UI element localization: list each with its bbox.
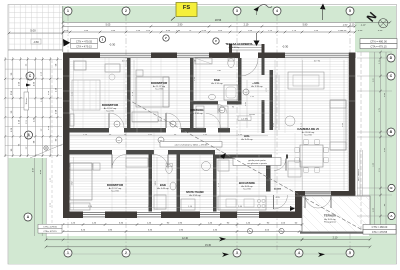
- terrace slab: [302, 196, 370, 232]
- grid bubble 2 bottom: [122, 249, 130, 257]
- door tag U1: [116, 137, 122, 143]
- svg-text:1.10: 1.10: [378, 30, 383, 32]
- svg-text:h= 2.55: h= 2.55: [106, 111, 114, 113]
- inner dim row corridor: [69, 135, 268, 137]
- bottom dim row 1: [63, 224, 302, 226]
- svg-text:12.40: 12.40: [182, 237, 189, 240]
- svg-text:5: 5: [349, 9, 351, 13]
- exterior wall: left: [63, 53, 70, 219]
- neighbour lot south edge: [8, 49, 63, 51]
- exterior wall: top, segment 2: [151, 53, 177, 59]
- bottom axis connector line: [63, 253, 351, 255]
- partition: bath/hall vertical upper: [238, 58, 242, 104]
- door tech room swing: [274, 159, 286, 171]
- north compass circle: [379, 19, 388, 28]
- floor parquet stripes: [70, 59, 348, 210]
- bottom ETN/ETA boxes left: [38, 224, 62, 228]
- garden green: top-right corner block: [355, 6, 396, 52]
- bottom bath fixtures: [166, 165, 172, 174]
- svg-text:CTN = 479.55: CTN = 479.55: [43, 227, 57, 229]
- entry door leaf + swing: [240, 58, 242, 76]
- porch steps: [232, 44, 262, 46]
- svg-text:BAIE: BAIE: [160, 183, 166, 187]
- grid bubble C left: [26, 72, 34, 80]
- svg-text:h= 2.55: h= 2.55: [111, 191, 119, 193]
- axis 4 vertical line: [276, 15, 278, 250]
- svg-text:CTA = 479.15: CTA = 479.15: [43, 230, 57, 233]
- wardrobe bottom bedroom: [126, 158, 148, 167]
- svg-text:atic h:2.20 [m]; h= 505m + 479: atic h:2.20 [m]; h= 505m + 479.55: [175, 144, 208, 147]
- svg-text:9x17.5x28cm: 9x17.5x28cm: [358, 169, 360, 181]
- green band left edge: [62, 6, 64, 52]
- partition: bottom bath left vertical: [149, 155, 153, 212]
- desk bottom bedroom: [70, 203, 90, 210]
- svg-text:4: 4: [298, 251, 300, 255]
- kitchen stove burners: [257, 199, 260, 202]
- hall level text: [238, 116, 251, 121]
- door bedroom1 swing: [108, 113, 110, 128]
- grid bubble 1 bottom: [64, 249, 72, 257]
- revision squiggle top: [258, 5, 273, 9]
- grid bubble 5 top: [346, 7, 354, 15]
- dim line 5.00 top-left: [9, 32, 63, 34]
- exterior wall: top, segment 4: [258, 53, 285, 59]
- small arrow left: [26, 84, 31, 87]
- axis 5 vertical line: [349, 15, 351, 250]
- svg-text:A= 4.46 mp: A= 4.46 mp: [157, 187, 169, 190]
- armchair living: [285, 116, 295, 126]
- desk bedroom1: [105, 64, 120, 72]
- secondary bubble near box: [99, 36, 105, 42]
- grid bubble C2 right: [387, 72, 395, 80]
- svg-text:HOL: HOL: [244, 134, 250, 138]
- sewer diagonal + manhole left: [30, 144, 63, 158]
- svg-text:A= 11.27 mp: A= 11.27 mp: [153, 85, 166, 88]
- roof diagonal dashed: [127, 99, 366, 232]
- grid bubble 4 top: [273, 7, 281, 15]
- bath top fixtures: [195, 58, 212, 64]
- partition: tech/kitchen vertical: [213, 155, 217, 212]
- window bottom W5: [137, 211, 161, 213]
- svg-text:usa glisanta in perete: usa glisanta in perete: [247, 162, 268, 165]
- grid bubble 1 top: [64, 7, 72, 15]
- svg-text:BAIE: BAIE: [214, 79, 220, 82]
- terrace steps right: [357, 150, 359, 196]
- living-terrace door opening: [305, 192, 331, 196]
- bottom black arrow mid: [222, 253, 229, 258]
- svg-text:2.90: 2.90: [343, 25, 348, 27]
- svg-text:-0.30: -0.30: [282, 45, 289, 49]
- grid bubble A left: [24, 213, 32, 221]
- partition: bath/dressing horizontal: [190, 101, 242, 105]
- secondary axis bubble: [163, 35, 169, 41]
- dressing door opening + swing: [206, 128, 218, 133]
- grid bubble 4 bottom: [295, 249, 303, 257]
- axis 1 vertical line: [67, 15, 69, 250]
- FS box pole: [171, 17, 175, 21]
- kitchen counter: [218, 196, 266, 210]
- svg-text:DRESSING: DRESSING: [190, 109, 203, 112]
- garden green: top band: [62, 6, 396, 23]
- note box corridor: [160, 142, 222, 148]
- neighbour lot grid hatch top-left: [9, 5, 62, 50]
- svg-text:h= 2.55: h= 2.55: [155, 89, 163, 91]
- grid bubble 3 top: [233, 7, 241, 15]
- bed bedroom2: [136, 77, 169, 107]
- hall duct lines: [275, 75, 277, 130]
- window top W2: [177, 52, 209, 54]
- partition: bath/tech vertical: [177, 155, 181, 212]
- svg-text:5.05: 5.05: [106, 24, 111, 27]
- wall connector kitchen-terrace: [295, 191, 302, 218]
- svg-text:A= 9.05 mp: A= 9.05 mp: [324, 218, 336, 221]
- svg-text:BUCATARIE: BUCATARIE: [239, 181, 255, 185]
- small arrow top right: [320, 4, 326, 10]
- top dimension row 18.56: [63, 21, 390, 23]
- grid bubble B left: [25, 131, 33, 139]
- terrace edge bottom: [300, 232, 371, 234]
- bottom dim row 2: [63, 231, 302, 233]
- svg-text:5: 5: [349, 251, 351, 255]
- svg-text:A= 8.09 mp: A= 8.09 mp: [241, 185, 253, 188]
- bath door swing: [218, 105, 227, 114]
- interior extension lines horizontal: [63, 76, 370, 196]
- svg-text:h= 2.55: h= 2.55: [243, 189, 251, 191]
- partition: kitchen north wall: [213, 155, 288, 159]
- door bottom bedroom swing: [111, 155, 113, 169]
- grid bubble 5 bottom: [346, 249, 354, 257]
- window bottom W7 kitchen: [237, 211, 259, 213]
- svg-text:Pavaj gresie: Pavaj gresie: [324, 221, 337, 224]
- left dimension chains: [5, 57, 57, 157]
- svg-text:CTN = 479.55: CTN = 479.55: [76, 39, 93, 43]
- exterior wall: top, segment 1: [63, 53, 100, 59]
- svg-text:A= 4.10 mp: A= 4.10 mp: [211, 82, 223, 85]
- window top W3 (living): [285, 52, 349, 54]
- svg-text:2: 2: [125, 251, 127, 255]
- svg-text:A= 12.07 mp: A= 12.07 mp: [109, 187, 122, 190]
- door living-terrace double swing: [305, 195, 318, 208]
- partition: corridor north wall: [70, 128, 231, 133]
- CTN/CTA box right top: [360, 39, 397, 44]
- bottom black arrow right: [318, 253, 325, 258]
- inner dim row mid room heights: [132, 121, 190, 123]
- garden green: right column: [369, 6, 396, 264]
- svg-text:3: 3: [236, 251, 238, 255]
- svg-text:A= 3.35 mp: A= 3.35 mp: [251, 85, 263, 88]
- grid bubble A right: [388, 212, 395, 219]
- svg-text:5.80: 5.80: [303, 24, 308, 27]
- pantry shelves right of kitchen: [288, 161, 301, 177]
- svg-text:15.30: 15.30: [205, 244, 212, 247]
- living TV cabinet: [288, 72, 324, 89]
- svg-text:3: 3: [236, 9, 238, 13]
- svg-text:-0.80: -0.80: [33, 41, 39, 44]
- exterior wall: right: [349, 53, 356, 196]
- inner dim row above bottom wall: [69, 207, 295, 209]
- svg-text:CTA = 479.55: CTA = 479.55: [372, 231, 388, 234]
- svg-text:CTA = 479.15: CTA = 479.15: [76, 44, 92, 48]
- living table + chairs: [300, 145, 323, 167]
- top dimension row A: [63, 25, 355, 27]
- svg-text:fer? 90: fer? 90: [122, 61, 129, 63]
- FS yellow box: [176, 3, 197, 17]
- svg-text:DORMITOR: DORMITOR: [107, 183, 124, 187]
- svg-text:DORMITOR: DORMITOR: [102, 103, 119, 107]
- axis 2 vertical line: [125, 15, 127, 250]
- dresser bedroom1: [74, 61, 86, 70]
- svg-text:2.10: 2.10: [342, 30, 347, 32]
- svg-text:SPATIU TEHNIC: SPATIU TEHNIC: [186, 191, 204, 194]
- bottom dim row 2b terrace: [302, 238, 370, 240]
- grid bubble B right: [387, 128, 395, 136]
- svg-text:fer? 90: fer? 90: [314, 61, 321, 63]
- dressing shelves: [196, 106, 204, 128]
- svg-text:±0.00: ±0.00: [249, 114, 255, 116]
- axis 3 vertical line: [236, 15, 238, 250]
- svg-text:-0.30: -0.30: [109, 43, 116, 47]
- drain bubbles bottom row: [247, 228, 252, 233]
- tech room boiler: [202, 162, 211, 171]
- dresser bedroom2: [132, 112, 158, 122]
- section arrow right: [290, 206, 295, 211]
- bottom dim row 4: [46, 246, 370, 248]
- svg-text:1.10: 1.10: [358, 30, 363, 32]
- svg-text:A= 6.56 mp: A= 6.56 mp: [189, 194, 201, 197]
- bathtub: [224, 85, 238, 100]
- svg-text:FS: FS: [183, 5, 190, 11]
- porch left wall stub: [229, 44, 232, 53]
- grid bubble D right: [387, 54, 395, 62]
- svg-text:h= 2.55: h= 2.55: [304, 135, 312, 137]
- window bottom W6: [200, 211, 220, 213]
- svg-text:TERASA: TERASA: [324, 214, 337, 218]
- right CTN/CTA box bottom: [363, 225, 396, 230]
- window top W1: [100, 52, 151, 54]
- door tag U1: [114, 121, 120, 127]
- interior extension lines vertical: [83, 58, 348, 211]
- radiator bedroom1: [70, 114, 74, 126]
- partition: bedroom1/2 vertical: [127, 58, 131, 128]
- svg-text:18.56: 18.56: [215, 18, 222, 22]
- wardrobe bedroom1: [72, 80, 100, 110]
- door tag U2: [158, 137, 164, 143]
- kitchen fridge: [218, 160, 229, 171]
- hall closet wall lower: [262, 100, 265, 133]
- svg-text:A= 12.07 mp: A= 12.07 mp: [104, 107, 117, 110]
- window bottom W4: [83, 211, 105, 213]
- svg-text:HOL: HOL: [254, 82, 260, 85]
- door bottom bath swing: [167, 155, 169, 169]
- grid bubble 2 top: [122, 7, 130, 15]
- door tag U1: [170, 121, 176, 127]
- svg-text:A= 26.06 mp: A= 26.06 mp: [302, 131, 315, 134]
- svg-text:DORMITOR: DORMITOR: [151, 81, 168, 85]
- porch entry arrow: [254, 41, 260, 47]
- door bedroom2 swing: [165, 113, 167, 128]
- svg-text:A= 4.30 mp: A= 4.30 mp: [229, 46, 241, 49]
- svg-text:CTN = 480.00: CTN = 480.00: [370, 40, 387, 44]
- nightstand bedroom2: [136, 70, 143, 76]
- svg-text:2.90: 2.90: [178, 24, 183, 27]
- svg-text:4: 4: [276, 9, 278, 13]
- nightstand bottom bedroom: [93, 163, 100, 170]
- svg-text:2.19: 2.19: [244, 24, 249, 27]
- garden green: left block: [9, 158, 47, 264]
- svg-text:(+0.05): (+0.05): [241, 119, 248, 121]
- svg-text:CTN = 480.00: CTN = 480.00: [372, 226, 388, 229]
- svg-text:2.10: 2.10: [361, 25, 366, 27]
- bed bottom bedroom: [70, 163, 92, 200]
- svg-text:1: 1: [67, 9, 69, 13]
- left rotated note box: [24, 92, 29, 110]
- svg-text:S teren: S teren: [25, 98, 28, 104]
- section triangle on diagonal: [220, 153, 226, 159]
- svg-text:1: 1: [67, 251, 69, 255]
- door dining-terrace swing: [273, 195, 275, 209]
- svg-text:CTA = 479.15: CTA = 479.15: [370, 45, 387, 49]
- bottom black arrow left: [219, 237, 226, 242]
- svg-text:A= 3.30 mp: A= 3.30 mp: [191, 112, 203, 115]
- right dashed boundary line: [360, 52, 362, 232]
- bath sink: [209, 94, 216, 100]
- partition: hall/living vertical: [270, 70, 274, 130]
- svg-text:TERASA ACOPERITA: TERASA ACOPERITA: [225, 42, 252, 46]
- note box kitchen: [233, 158, 281, 166]
- exterior wall: bottom: [63, 212, 83, 219]
- bottom dim row 3: [46, 239, 302, 241]
- right dimension chains: [374, 52, 376, 232]
- hall right stub upper: [262, 58, 265, 75]
- svg-text:A= 9.45 mp: A= 9.45 mp: [241, 138, 253, 141]
- exterior wall: top, segment 3: [209, 53, 240, 59]
- porch right wall stub: [262, 44, 265, 53]
- svg-text:grinda peste parter: grinda peste parter: [248, 159, 266, 162]
- door tag U3: [243, 89, 249, 95]
- svg-text:2: 2: [125, 9, 127, 13]
- living room south wall: [295, 191, 355, 196]
- partition: corridor south wall: [70, 150, 216, 155]
- svg-text:5.00: 5.00: [30, 29, 36, 33]
- door tag U2: [219, 107, 225, 113]
- top dimension row B: [63, 31, 355, 33]
- exterior wall: top right corner: [349, 53, 356, 59]
- svg-text:1.10: 1.10: [350, 24, 355, 27]
- partition: kitchen/dining vertical: [266, 159, 271, 192]
- garden green: bottom strip: [9, 236, 397, 264]
- partition: bedroom2/bath vertical: [190, 58, 194, 128]
- CTN/CTA box left with cursor arrow: [63, 39, 70, 47]
- living sofa: [330, 100, 346, 150]
- grid bubble B' right: [388, 184, 395, 191]
- grid bubble 3 bottom: [233, 249, 241, 257]
- left green verticals: [33, 158, 35, 236]
- svg-text:2.10: 2.10: [333, 237, 338, 240]
